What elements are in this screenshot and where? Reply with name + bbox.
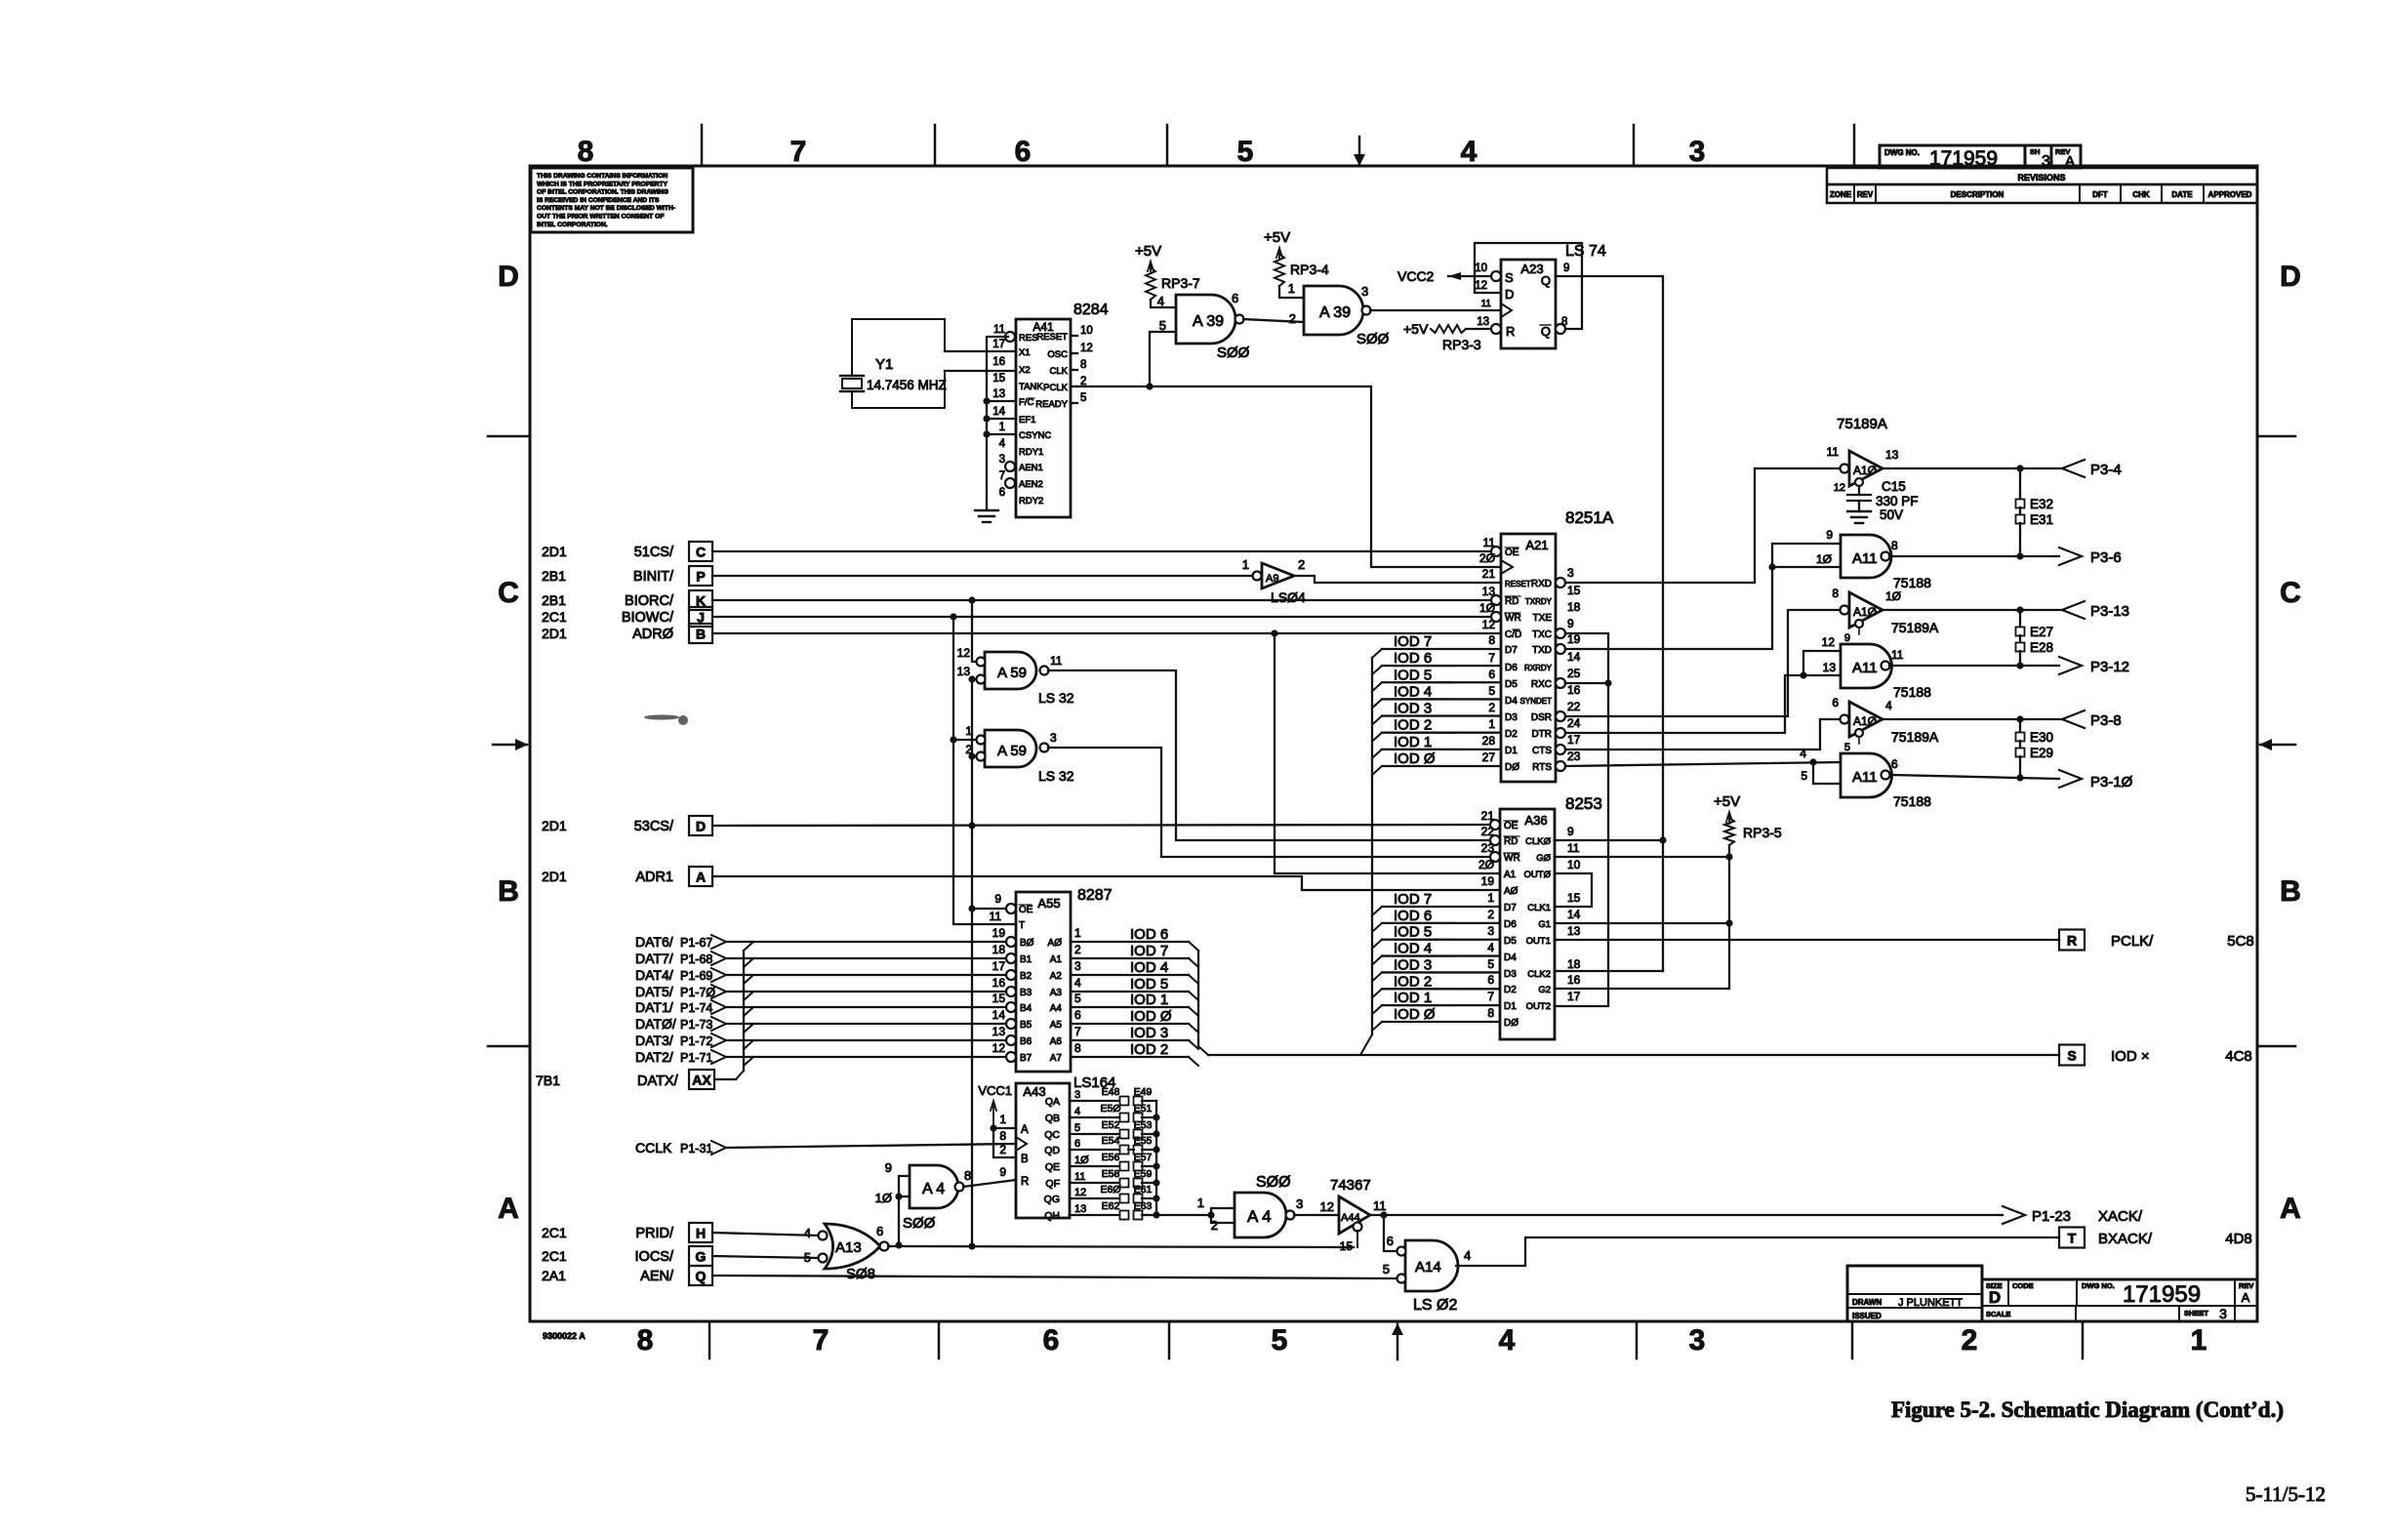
svg-text:P: P xyxy=(696,569,705,585)
ground bus at 8284 xyxy=(987,337,1008,510)
svg-text:75189A: 75189A xyxy=(1891,620,1939,635)
svg-text:1: 1 xyxy=(1488,717,1495,731)
svg-text:WR: WR xyxy=(1504,853,1520,864)
output box S IOD X xyxy=(2059,1045,2085,1066)
svg-text:TXE: TXE xyxy=(1533,613,1553,624)
svg-text:WR: WR xyxy=(1505,613,1521,624)
svg-text:IOD 7: IOD 7 xyxy=(1394,633,1432,650)
svg-text:IOD Ø: IOD Ø xyxy=(1394,750,1436,767)
svg-text:4: 4 xyxy=(1464,1248,1471,1263)
connector P3-6 xyxy=(2059,547,2082,565)
svg-text:2: 2 xyxy=(1962,1324,1978,1357)
svg-text:H: H xyxy=(696,1226,706,1241)
svg-text:2D1: 2D1 xyxy=(542,626,567,641)
svg-text:16: 16 xyxy=(1567,973,1581,987)
svg-text:6: 6 xyxy=(1074,1138,1080,1150)
svg-text:5: 5 xyxy=(1272,1324,1288,1357)
svg-text:RD: RD xyxy=(1504,836,1518,847)
jumper E55 xyxy=(1134,1146,1143,1155)
wire QA to jumper E48 xyxy=(1070,1100,1119,1102)
svg-text:OUT2: OUT2 xyxy=(1526,1001,1551,1012)
svg-text:8: 8 xyxy=(999,1129,1006,1143)
border frame xyxy=(530,166,2257,1321)
svg-text:4: 4 xyxy=(1461,136,1478,168)
svg-text:A1Ø: A1Ø xyxy=(1853,464,1877,477)
svg-text:IOD 2: IOD 2 xyxy=(1394,717,1432,734)
svg-text:Q: Q xyxy=(696,1269,707,1284)
wire RTS to A11c inputs xyxy=(1565,762,1841,766)
svg-text:A13: A13 xyxy=(835,1239,862,1256)
svg-text:11: 11 xyxy=(1074,1171,1085,1183)
svg-text:1: 1 xyxy=(999,422,1005,433)
wire A39b out to LS74 clk xyxy=(1370,309,1501,311)
svg-text:D: D xyxy=(2280,261,2301,293)
svg-text:D4: D4 xyxy=(1505,696,1518,707)
svg-text:E31: E31 xyxy=(2030,512,2053,527)
jumper E28 xyxy=(2019,635,2021,643)
svg-text:8: 8 xyxy=(578,136,594,168)
svg-text:A 39: A 39 xyxy=(1193,313,1224,330)
svg-text:2D1: 2D1 xyxy=(542,818,567,833)
svg-text:OE: OE xyxy=(1505,547,1519,558)
wire CTS to A10c xyxy=(1565,719,1840,750)
wire A44 out / XACK xyxy=(1370,1214,2003,1216)
svg-text:13: 13 xyxy=(1823,661,1837,674)
svg-text:P3-12: P3-12 xyxy=(2090,659,2129,675)
svg-text:D2: D2 xyxy=(1505,729,1518,740)
svg-text:T: T xyxy=(2068,1231,2077,1246)
svg-text:8: 8 xyxy=(1832,587,1839,600)
svg-text:25: 25 xyxy=(1567,667,1581,680)
svg-text:B7: B7 xyxy=(1020,1053,1033,1064)
svg-text:7: 7 xyxy=(1488,651,1495,665)
svg-text:ADR1: ADR1 xyxy=(635,870,673,885)
svg-text:RP3-3: RP3-3 xyxy=(1442,337,1481,352)
svg-text:D2: D2 xyxy=(1504,985,1517,995)
wire IOD 7 to 8253 D7 xyxy=(1382,906,1500,908)
wire IOD Ø to 8253 D0 xyxy=(1382,1021,1500,1023)
svg-text:E48: E48 xyxy=(1102,1086,1120,1098)
svg-text:E61: E61 xyxy=(1134,1184,1153,1196)
jumper E32 xyxy=(2019,468,2021,500)
svg-text:THIS DRAWING CONTAINS INFORMAT: THIS DRAWING CONTAINS INFORMATION xyxy=(537,173,668,180)
svg-text:13: 13 xyxy=(1885,448,1899,462)
svg-text:SØ8: SØ8 xyxy=(846,1266,875,1282)
svg-text:D7: D7 xyxy=(1504,903,1517,913)
svg-text:8: 8 xyxy=(637,1324,654,1357)
svg-text:P3-6: P3-6 xyxy=(2090,549,2122,566)
svg-text:2C1: 2C1 xyxy=(542,1248,567,1264)
svg-text:D1: D1 xyxy=(1504,1001,1517,1012)
capacitor C15 330PF 50V xyxy=(1858,486,1860,495)
svg-text:1: 1 xyxy=(1242,557,1249,572)
svg-text:2Ø: 2Ø xyxy=(1478,858,1494,871)
svg-text:6: 6 xyxy=(1232,291,1238,305)
svg-text:READY: READY xyxy=(1035,399,1068,410)
svg-text:11: 11 xyxy=(1481,299,1492,309)
ground below C15 xyxy=(1847,510,1871,512)
svg-text:2: 2 xyxy=(1074,943,1081,956)
svg-text:7: 7 xyxy=(790,136,807,168)
svg-text:P3-13: P3-13 xyxy=(2090,603,2129,620)
svg-text:C/D: C/D xyxy=(1505,629,1521,640)
svg-text:2Ø: 2Ø xyxy=(1479,551,1495,565)
svg-text:6: 6 xyxy=(999,487,1005,499)
svg-text:C: C xyxy=(696,545,706,560)
svg-text:G1: G1 xyxy=(1538,919,1551,930)
svg-text:2B1: 2B1 xyxy=(542,568,566,584)
svg-text:D: D xyxy=(1989,1288,2001,1307)
svg-text:13: 13 xyxy=(992,388,1005,400)
wire IOD 6 to 8253 D6 xyxy=(1382,922,1500,924)
svg-text:A11: A11 xyxy=(1852,769,1878,786)
svg-text:12: 12 xyxy=(957,646,971,660)
svg-text:E57: E57 xyxy=(1134,1152,1153,1163)
svg-text:RXRDY: RXRDY xyxy=(1524,664,1553,672)
svg-text:E55: E55 xyxy=(1134,1135,1153,1147)
svg-text:19: 19 xyxy=(992,926,1006,940)
wire AEN to A14 pin5 xyxy=(712,1276,1397,1278)
svg-text:A: A xyxy=(2242,1290,2250,1305)
jumper E62 xyxy=(1120,1211,1129,1220)
svg-text:171959: 171959 xyxy=(2123,1281,2201,1308)
wire IOD 1 to 8253 D1 xyxy=(1382,1004,1500,1006)
wire IOD 5 to 8253 D5 xyxy=(1382,939,1500,941)
svg-text:IOD 4: IOD 4 xyxy=(1394,683,1432,700)
svg-text:RESET: RESET xyxy=(1505,580,1531,588)
pin 15 enable (74367) xyxy=(1354,1223,1362,1232)
svg-text:75188: 75188 xyxy=(1893,793,1931,809)
svg-text:RP3-7: RP3-7 xyxy=(1161,275,1200,291)
svg-text:D3: D3 xyxy=(1505,712,1518,723)
svg-text:12: 12 xyxy=(1320,1199,1334,1214)
svg-text:P1-31: P1-31 xyxy=(680,1142,712,1155)
svg-text:RDY2: RDY2 xyxy=(1019,496,1043,507)
jumper link E54-E55 xyxy=(1128,1149,1134,1151)
svg-text:3: 3 xyxy=(1296,1196,1303,1211)
svg-text:T: T xyxy=(1019,920,1025,931)
svg-text:E28: E28 xyxy=(2030,640,2053,655)
svg-text:DATX/: DATX/ xyxy=(637,1074,679,1089)
svg-text:6: 6 xyxy=(1832,696,1839,709)
wire LS74 Q to CLK0/CLK2 xyxy=(1556,276,1663,840)
svg-text:A36: A36 xyxy=(1524,813,1547,828)
svg-text:+5V: +5V xyxy=(1264,229,1290,246)
svg-text:E32: E32 xyxy=(2030,497,2053,511)
svg-text:IOD Ø: IOD Ø xyxy=(1130,1008,1172,1025)
svg-text:PCLK: PCLK xyxy=(1043,383,1068,393)
svg-text:2: 2 xyxy=(1298,557,1305,572)
jumper E58 xyxy=(1120,1179,1129,1188)
svg-text:C: C xyxy=(2280,577,2301,609)
svg-text:D: D xyxy=(696,819,706,834)
wire A39a out to A39b pin2 xyxy=(1243,319,1304,322)
DAT bundle vertical xyxy=(743,951,745,1071)
wire IOD 2 to 8253 D2 xyxy=(1382,988,1500,990)
svg-text:A55: A55 xyxy=(1037,896,1060,911)
svg-text:16: 16 xyxy=(1567,683,1581,697)
svg-text:11: 11 xyxy=(1050,654,1063,668)
svg-text:51CS/: 51CS/ xyxy=(634,545,674,560)
svg-text:OUT THE PRIOR WRITTEN CONSENT: OUT THE PRIOR WRITTEN CONSENT OF xyxy=(537,214,664,221)
svg-text:12: 12 xyxy=(1834,482,1845,494)
wire Y1 X2 xyxy=(945,370,1016,372)
jumper E59 xyxy=(1134,1179,1143,1188)
svg-text:CONTENTS MAY NOT BE DISCLOSED: CONTENTS MAY NOT BE DISCLOSED WITH- xyxy=(537,205,675,212)
svg-text:D4: D4 xyxy=(1504,952,1517,963)
svg-text:DAT1/: DAT1/ xyxy=(635,999,673,1015)
wire DTR to A11b inputs xyxy=(1565,675,1803,733)
svg-text:2B1: 2B1 xyxy=(542,592,566,608)
svg-text:SH: SH xyxy=(2030,147,2040,156)
svg-text:1: 1 xyxy=(1487,891,1494,905)
svg-text:A: A xyxy=(696,870,706,885)
artifact smudge xyxy=(644,714,688,725)
svg-text:11: 11 xyxy=(1567,841,1580,855)
svg-text:D5: D5 xyxy=(1505,679,1518,690)
svg-text:4: 4 xyxy=(1800,747,1806,760)
wire IOD 3 to 8251 D3 xyxy=(1382,714,1501,716)
svg-text:A7: A7 xyxy=(1050,1053,1063,1064)
svg-text:VCC2: VCC2 xyxy=(1397,268,1435,284)
wire A4a input jog xyxy=(899,1176,910,1245)
svg-text:DESCRIPTION: DESCRIPTION xyxy=(1951,190,2004,199)
wire QB to jumper E5Ø xyxy=(1070,1116,1119,1118)
connector P3-4 xyxy=(2062,460,2085,477)
svg-text:DAT5/: DAT5/ xyxy=(635,984,673,999)
svg-text:A3: A3 xyxy=(1050,988,1063,998)
svg-text:A9: A9 xyxy=(1266,573,1278,585)
wire A59a out to 8253 RD xyxy=(1048,670,1500,840)
wire IOD 4 to 8253 D4 xyxy=(1382,954,1500,956)
svg-text:SØØ: SØØ xyxy=(903,1215,936,1232)
svg-text:PRID/: PRID/ xyxy=(635,1226,674,1241)
svg-text:E30: E30 xyxy=(2030,730,2053,745)
wire IOD 7 to 8251 D7 xyxy=(1382,648,1501,650)
svg-text:A 39: A 39 xyxy=(1319,304,1351,321)
wire OUT0 to CLK1 loop xyxy=(1555,873,1592,907)
jumper E61 xyxy=(1134,1195,1143,1203)
wire RP3-5 to G0 G1 G2 xyxy=(1555,845,1729,989)
svg-text:B6: B6 xyxy=(1020,1036,1033,1047)
svg-text:DØ: DØ xyxy=(1504,1018,1518,1029)
svg-text:E5Ø: E5Ø xyxy=(1100,1103,1120,1114)
wire A11c out to P3-10 xyxy=(1891,775,2059,779)
svg-text:14: 14 xyxy=(992,406,1005,418)
connector P3-13 xyxy=(2062,601,2085,619)
svg-text:18: 18 xyxy=(992,943,1006,956)
wire IOD 3 to 8253 D3 xyxy=(1382,971,1500,973)
svg-text:BIOWC/: BIOWC/ xyxy=(622,610,674,626)
svg-text:A21: A21 xyxy=(1525,538,1548,552)
svg-text:SØØ: SØØ xyxy=(1356,331,1390,347)
svg-text:RESET: RESET xyxy=(1036,332,1068,343)
svg-text:9: 9 xyxy=(1844,632,1850,644)
svg-text:OF INTEL CORPORATION. THIS DRA: OF INTEL CORPORATION. THIS DRAWING xyxy=(537,189,668,196)
svg-text:VCC1: VCC1 xyxy=(978,1083,1012,1098)
svg-text:CSYNC: CSYNC xyxy=(1019,430,1051,441)
svg-text:XACK/: XACK/ xyxy=(2098,1208,2143,1225)
jumper E48 xyxy=(1120,1097,1129,1106)
svg-text:8: 8 xyxy=(1488,633,1495,647)
wire A59b out to 8253 WR xyxy=(1048,748,1500,857)
svg-text:R: R xyxy=(1021,1176,1029,1188)
svg-text:14: 14 xyxy=(1567,908,1581,921)
svg-text:E63: E63 xyxy=(1134,1200,1153,1212)
svg-text:14.7456 MHZ: 14.7456 MHZ xyxy=(867,378,947,392)
svg-text:16: 16 xyxy=(992,976,1006,990)
svg-text:1: 1 xyxy=(1074,926,1081,940)
svg-text:IOD 2: IOD 2 xyxy=(1130,1041,1168,1058)
svg-text:3: 3 xyxy=(1074,1089,1080,1101)
svg-text:P1-67: P1-67 xyxy=(680,936,712,950)
svg-text:C15: C15 xyxy=(1882,479,1906,494)
svg-text:75189A: 75189A xyxy=(1837,416,1887,432)
svg-text:5: 5 xyxy=(1074,1122,1080,1134)
svg-text:REV: REV xyxy=(2239,1281,2253,1290)
svg-text:P1-68: P1-68 xyxy=(680,952,712,966)
svg-text:15: 15 xyxy=(1567,891,1581,905)
wire TXC/RXC to OUT2 xyxy=(1555,633,1608,1006)
svg-text:DAT4/: DAT4/ xyxy=(635,967,673,983)
svg-text:APPROVED: APPROVED xyxy=(2208,190,2252,199)
svg-text:8: 8 xyxy=(1891,539,1898,552)
jumper E29 xyxy=(2019,741,2021,749)
wire A11a out to P3-6 xyxy=(1889,555,2059,557)
svg-text:+5V: +5V xyxy=(1714,793,1740,810)
wire ADR0 to 8253 A1 xyxy=(1271,629,1277,636)
svg-text:1Ø: 1Ø xyxy=(1885,589,1901,603)
svg-text:ISSUED: ISSUED xyxy=(1852,1312,1882,1320)
svg-text:5: 5 xyxy=(1488,684,1495,698)
svg-text:BØ: BØ xyxy=(1020,938,1034,949)
svg-text:12: 12 xyxy=(992,1041,1006,1055)
svg-text:CODE: CODE xyxy=(2012,1281,2034,1290)
svg-text:P3-1Ø: P3-1Ø xyxy=(2090,774,2133,790)
svg-text:5-11/5-12: 5-11/5-12 xyxy=(2246,1482,2326,1506)
svg-text:1Ø: 1Ø xyxy=(875,1191,892,1205)
svg-text:9: 9 xyxy=(1567,825,1574,838)
svg-text:QH: QH xyxy=(1044,1210,1060,1222)
svg-text:E6Ø: E6Ø xyxy=(1100,1184,1120,1196)
svg-text:19: 19 xyxy=(1481,874,1495,888)
svg-text:D6: D6 xyxy=(1504,919,1517,930)
wire IOD Ø to 8251 D0 xyxy=(1382,765,1501,767)
svg-text:IOD 5: IOD 5 xyxy=(1394,924,1432,941)
clock generator U A41 8284 xyxy=(1016,319,1071,517)
svg-text:17: 17 xyxy=(1567,990,1581,1003)
svg-text:15: 15 xyxy=(1340,1239,1354,1253)
jumper E5Ø xyxy=(1120,1114,1129,1122)
svg-text:75188: 75188 xyxy=(1893,684,1931,700)
svg-text:P3-4: P3-4 xyxy=(2090,462,2122,478)
svg-text:DAT3/: DAT3/ xyxy=(635,1033,673,1048)
svg-text:9: 9 xyxy=(1826,528,1833,542)
svg-text:G2: G2 xyxy=(1538,985,1551,995)
svg-text:SØØ: SØØ xyxy=(1217,344,1250,361)
svg-text:74367: 74367 xyxy=(1330,1177,1371,1194)
svg-text:LS Ø2: LS Ø2 xyxy=(1413,1297,1457,1314)
svg-text:OE: OE xyxy=(1504,821,1518,831)
svg-text:171959: 171959 xyxy=(1929,147,1998,170)
svg-text:5: 5 xyxy=(1844,742,1850,753)
svg-text:CHK: CHK xyxy=(2132,190,2150,199)
svg-text:10: 10 xyxy=(1080,325,1093,337)
svg-text:4D8: 4D8 xyxy=(2225,1231,2252,1247)
jumper E63 xyxy=(1134,1211,1143,1220)
svg-text:PCLK/: PCLK/ xyxy=(2111,933,2154,950)
svg-text:1: 1 xyxy=(965,724,972,738)
wire TXD to A11a inputs xyxy=(1565,544,1841,649)
svg-text:E62: E62 xyxy=(1102,1200,1120,1212)
svg-text:4: 4 xyxy=(1487,941,1494,954)
pin 2 B (LS164) xyxy=(993,1128,1016,1157)
svg-text:2: 2 xyxy=(1488,701,1495,714)
svg-text:E29: E29 xyxy=(2030,746,2053,760)
svg-text:+5V: +5V xyxy=(1403,321,1429,337)
svg-text:IOD Ø: IOD Ø xyxy=(1394,1006,1436,1023)
jumper E30 xyxy=(2019,719,2021,733)
jumper E27 xyxy=(2019,610,2021,628)
svg-text:4: 4 xyxy=(804,1226,811,1240)
svg-text:QG: QG xyxy=(1044,1194,1060,1205)
wire A4a out to LS164 R xyxy=(963,1180,1016,1187)
svg-text:15: 15 xyxy=(1567,584,1581,597)
svg-text:AEN2: AEN2 xyxy=(1019,479,1043,490)
wire A10a out to P3-4 xyxy=(1883,467,2062,469)
svg-text:RD: RD xyxy=(1505,596,1518,607)
zone arrow right xyxy=(2260,744,2295,747)
svg-text:15: 15 xyxy=(992,373,1005,385)
svg-text:4: 4 xyxy=(1157,294,1164,308)
svg-text:A1Ø: A1Ø xyxy=(1853,714,1877,728)
svg-text:9: 9 xyxy=(1567,617,1574,630)
svg-text:12: 12 xyxy=(1074,1187,1086,1198)
svg-text:BIORC/: BIORC/ xyxy=(625,593,674,609)
svg-text:7: 7 xyxy=(999,470,1005,482)
svg-text:OSC: OSC xyxy=(1047,349,1068,360)
zone arrow top xyxy=(1358,137,1361,165)
svg-text:OUTØ: OUTØ xyxy=(1524,870,1552,880)
svg-text:CLK: CLK xyxy=(1050,366,1069,377)
svg-text:IS RECEIVED IN CONFIDENCE AND: IS RECEIVED IN CONFIDENCE AND ITS xyxy=(537,197,660,204)
wire IOD 5 to 8251 D5 xyxy=(1382,681,1501,683)
svg-text:R: R xyxy=(1506,324,1515,339)
svg-text:F/C: F/C xyxy=(1019,397,1033,408)
svg-text:5: 5 xyxy=(1237,136,1254,168)
svg-text:AEN1: AEN1 xyxy=(1019,463,1043,473)
svg-text:IOD 1: IOD 1 xyxy=(1394,990,1432,1006)
svg-text:E52: E52 xyxy=(1102,1119,1120,1131)
svg-text:G: G xyxy=(696,1249,707,1265)
svg-text:6: 6 xyxy=(1074,1008,1081,1022)
svg-text:1: 1 xyxy=(1288,281,1295,296)
top title block DWG NO xyxy=(1880,145,2025,168)
wire LS74 feedback Qbar to D xyxy=(1475,243,1582,329)
connector P3-12 xyxy=(2059,657,2082,674)
jumper E31 xyxy=(2019,507,2021,515)
svg-text:INTEL CORPORATION.: INTEL CORPORATION. xyxy=(537,222,608,228)
svg-text:ZONE: ZONE xyxy=(1830,190,1852,199)
svg-text:DSR: DSR xyxy=(1531,712,1552,723)
svg-text:IOD 2: IOD 2 xyxy=(1394,973,1432,990)
crystal Y1 14.7456 MHZ xyxy=(852,319,945,376)
svg-text:1: 1 xyxy=(2191,1324,2207,1357)
svg-text:10: 10 xyxy=(1475,263,1487,274)
wire Y1 X1 xyxy=(945,350,1016,352)
svg-text:2: 2 xyxy=(1487,908,1494,921)
jumper E54 xyxy=(1120,1146,1129,1155)
